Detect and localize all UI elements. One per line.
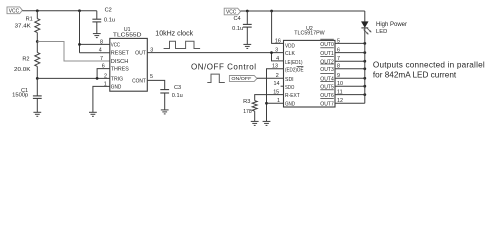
svg-text:ON/OFF: ON/OFF bbox=[231, 76, 251, 82]
pin 8 OUT3 of U2 bbox=[320, 64, 365, 73]
svg-text:C4: C4 bbox=[233, 16, 240, 22]
power flag VCC (left) bbox=[7, 7, 22, 14]
capacitor C3 bbox=[160, 85, 182, 110]
pin 5 OUT0 of U2 bbox=[320, 38, 365, 48]
label TLC5917PW bbox=[294, 30, 325, 36]
pin 6 THRES of U1 bbox=[102, 64, 129, 73]
svg-text:for 842mA LED current: for 842mA LED current bbox=[373, 70, 457, 79]
text 10kHz clock bbox=[155, 28, 193, 37]
svg-text:TRIG: TRIG bbox=[111, 76, 123, 82]
wire VDD drop to pin 16 bbox=[272, 11, 284, 43]
wire SDI net (ON/OFF to pin 2) bbox=[257, 77, 284, 79]
svg-text:37.4K: 37.4K bbox=[15, 23, 31, 29]
wire U2 GND pin bbox=[267, 102, 284, 104]
svg-text:5: 5 bbox=[150, 74, 153, 80]
wire VCC rail (left) bbox=[22, 10, 96, 12]
wire U1 supply drop (VCC+RESET) bbox=[80, 11, 110, 53]
pin 4 LE(ED1) of U2 bbox=[276, 56, 303, 66]
svg-text:20.0K: 20.0K bbox=[14, 67, 31, 73]
text LED bbox=[376, 29, 387, 35]
svg-text:3: 3 bbox=[275, 48, 278, 54]
ground U2 GND/OE bbox=[263, 121, 271, 125]
capacitor C1 bbox=[12, 78, 42, 112]
pin 14 SDO of U2 bbox=[274, 81, 295, 91]
wire OE to ground rail bbox=[267, 69, 284, 122]
ground C4 bbox=[243, 44, 251, 48]
svg-text:DISCH: DISCH bbox=[111, 59, 129, 65]
pin 8 VCC of U1 bbox=[100, 39, 120, 48]
svg-text:C2: C2 bbox=[105, 8, 112, 14]
ground U1 GND bbox=[89, 112, 97, 116]
wire LED to bus bbox=[364, 28, 366, 44]
stub SDO bbox=[281, 85, 284, 87]
svg-text:OUT1: OUT1 bbox=[320, 51, 334, 57]
junction node THRES tap bbox=[96, 77, 99, 80]
pin 9 OUT4 of U2 bbox=[320, 73, 365, 82]
pin 16 VDD of U2 bbox=[275, 38, 295, 49]
pin 10 OUT5 of U2 bbox=[320, 81, 365, 90]
svg-text:(ED2)OE: (ED2)OE bbox=[285, 67, 304, 73]
wire CONT to C3 bbox=[147, 80, 164, 89]
svg-text:VDD: VDD bbox=[285, 43, 295, 49]
pin 7 DISCH of U1 bbox=[100, 56, 128, 65]
capacitor C2 bbox=[92, 8, 115, 34]
junction node bus row 0 bbox=[363, 42, 366, 45]
svg-text:OUT2: OUT2 bbox=[320, 59, 334, 65]
junction node bus row 2 bbox=[363, 60, 366, 63]
svg-text:14: 14 bbox=[274, 81, 280, 87]
svg-text:LE(ED1): LE(ED1) bbox=[285, 60, 303, 66]
svg-text:0.1u: 0.1u bbox=[172, 93, 183, 99]
svg-text:CLK: CLK bbox=[285, 51, 295, 57]
svg-text:2: 2 bbox=[276, 73, 279, 79]
wire R-EXT to R3 bbox=[255, 95, 284, 101]
ground C2 bbox=[93, 34, 101, 38]
svg-text:TLC555D: TLC555D bbox=[113, 33, 142, 39]
svg-text:R3: R3 bbox=[243, 99, 250, 105]
junction node U1 supply drop bbox=[78, 9, 81, 12]
text outputs note line 2 bbox=[373, 70, 457, 79]
svg-text:6: 6 bbox=[102, 64, 105, 70]
svg-text:4: 4 bbox=[276, 56, 279, 62]
svg-text:0.1u: 0.1u bbox=[232, 26, 243, 32]
junction node C4 tap bbox=[246, 10, 249, 13]
pin 2 TRIG of U1 bbox=[104, 73, 123, 82]
wire rail to LED bbox=[364, 11, 366, 22]
pin 1 GND of U1 bbox=[104, 81, 122, 90]
wire LE tie to clock bbox=[272, 53, 284, 61]
svg-text:OUT7: OUT7 bbox=[320, 102, 334, 108]
svg-text:15: 15 bbox=[273, 90, 279, 96]
svg-text:SDI: SDI bbox=[285, 77, 294, 83]
svg-text:OUT3: OUT3 bbox=[320, 67, 334, 73]
svg-text:GND: GND bbox=[285, 101, 295, 107]
junction node bus row 1 bbox=[363, 51, 366, 54]
junction node LE/CLK tie bbox=[270, 51, 273, 54]
svg-text:SDO: SDO bbox=[285, 85, 295, 91]
svg-text:OUT6: OUT6 bbox=[320, 93, 334, 99]
svg-text:13: 13 bbox=[272, 64, 278, 70]
svg-text:C3: C3 bbox=[174, 85, 181, 91]
junction node bus row 3 bbox=[363, 67, 366, 70]
svg-text:High Power: High Power bbox=[376, 22, 407, 28]
wire DISCH net bbox=[37, 42, 110, 62]
ground C1 bbox=[33, 112, 41, 116]
svg-text:VCC: VCC bbox=[111, 42, 120, 48]
svg-text:0.1u: 0.1u bbox=[104, 18, 115, 24]
svg-text:ON/OFF Control: ON/OFF Control bbox=[191, 62, 256, 71]
svg-text:TLC5917PW: TLC5917PW bbox=[294, 30, 325, 36]
pin 1 GND of U2 bbox=[277, 98, 295, 107]
junction node R1 top bbox=[36, 9, 39, 12]
svg-text:OUT0: OUT0 bbox=[320, 42, 334, 48]
resistor R2 bbox=[14, 42, 40, 79]
svg-text:LED: LED bbox=[376, 29, 387, 35]
junction node VDD drop bbox=[270, 10, 273, 13]
svg-text:4: 4 bbox=[99, 48, 102, 54]
text ON/OFF Control bbox=[191, 62, 256, 71]
wire U1 GND to ground bbox=[93, 86, 110, 112]
svg-text:GND: GND bbox=[111, 84, 122, 90]
diode D1 High Power LED bbox=[361, 22, 371, 35]
junction node bus row 5 bbox=[363, 85, 366, 88]
op IC U2 TLC5917PW box bbox=[284, 40, 336, 107]
svg-text:R1: R1 bbox=[26, 16, 33, 22]
power flag VCC (mid) bbox=[224, 8, 240, 15]
svg-text:VCC: VCC bbox=[226, 9, 237, 15]
svg-text:7: 7 bbox=[100, 56, 103, 62]
pin 13 (ED2)OE of U2 bbox=[272, 64, 304, 74]
svg-text:THRES: THRES bbox=[111, 67, 129, 73]
pin 7 OUT2 of U2 bbox=[320, 56, 365, 65]
pulse waveform glyph bbox=[207, 74, 225, 82]
pin 3 OUT of U1 bbox=[135, 47, 153, 56]
label U1 bbox=[124, 27, 131, 33]
wire THRES branch bbox=[97, 69, 110, 79]
ground R3 bbox=[251, 121, 259, 125]
pin 12 OUT7 of U2 bbox=[320, 98, 365, 107]
pin 4 RESET of U1 bbox=[99, 48, 130, 57]
svg-text:CONT: CONT bbox=[132, 78, 146, 84]
wire VCC rail (right) bbox=[241, 10, 365, 12]
svg-text:10kHz clock: 10kHz clock bbox=[155, 28, 193, 37]
svg-text:2: 2 bbox=[104, 73, 107, 79]
wire output bus bbox=[364, 43, 366, 103]
capacitor C4 bbox=[232, 11, 252, 44]
svg-text:OUT: OUT bbox=[135, 51, 146, 57]
pin 15 R-EXT of U2 bbox=[273, 90, 300, 100]
pin 3 CLK of U2 bbox=[275, 48, 295, 58]
svg-text:RESET: RESET bbox=[111, 51, 130, 57]
junction node R1/R2/DISCH bbox=[36, 40, 39, 43]
svg-text:Outputs connected in parallel: Outputs connected in parallel bbox=[373, 61, 485, 70]
svg-text:R2: R2 bbox=[22, 56, 29, 62]
svg-text:1: 1 bbox=[277, 98, 280, 104]
svg-text:VCC: VCC bbox=[9, 8, 20, 14]
junction node GND tie bbox=[265, 102, 268, 105]
label TLC555D bbox=[113, 33, 142, 39]
pin 5 CONT of U1 bbox=[132, 74, 153, 84]
pin 6 OUT1 of U2 bbox=[320, 48, 365, 57]
resistor R1 bbox=[15, 11, 40, 42]
junction node VCC/RESET tie bbox=[78, 43, 81, 46]
net flag ON/OFF bbox=[229, 76, 257, 83]
label U2 bbox=[306, 26, 313, 32]
pin 11 OUT6 of U2 bbox=[320, 90, 365, 99]
wire TRIG net bbox=[37, 77, 110, 79]
clock waveform glyph bbox=[164, 41, 201, 48]
pin 2 SDI of U2 bbox=[276, 73, 294, 83]
op IC U1 TLC555D box bbox=[110, 38, 148, 91]
resistor R3 bbox=[243, 99, 257, 121]
ground C3 bbox=[161, 110, 169, 114]
svg-text:8: 8 bbox=[100, 39, 103, 45]
svg-text:1500p: 1500p bbox=[12, 93, 28, 99]
svg-text:16: 16 bbox=[275, 38, 281, 44]
text High Power bbox=[376, 22, 407, 28]
svg-text:178: 178 bbox=[243, 109, 252, 115]
junction node TRIG bbox=[36, 77, 39, 80]
junction node bus row 6 bbox=[363, 93, 366, 96]
junction node bus row 4 bbox=[363, 77, 366, 80]
text outputs note line 1 bbox=[373, 61, 485, 70]
svg-text:R-EXT: R-EXT bbox=[285, 93, 300, 99]
wire 10kHz clock net (OUT to CLK) bbox=[147, 52, 283, 54]
